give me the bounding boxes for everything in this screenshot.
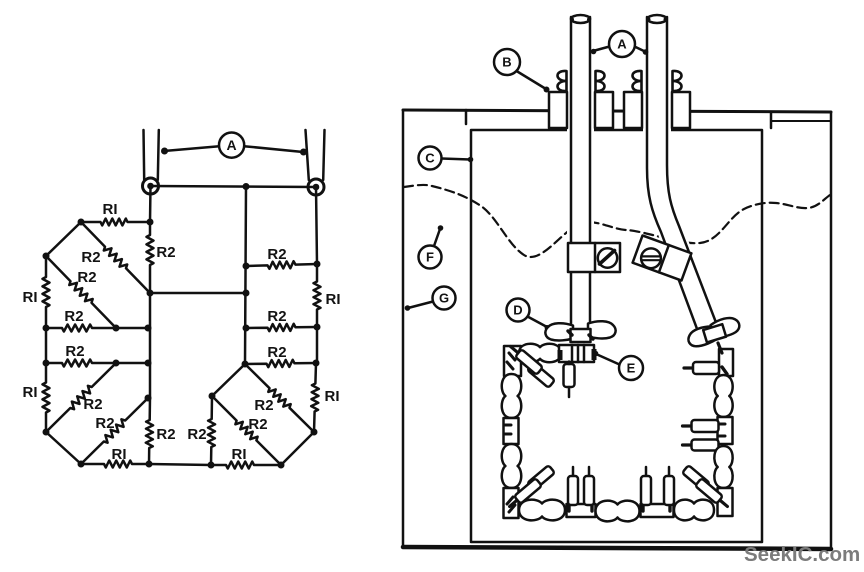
node xyxy=(147,290,154,297)
clamp B2 xyxy=(596,71,605,92)
svg-text:RI: RI xyxy=(325,388,340,405)
bottom peanut 1 xyxy=(519,500,565,521)
tilted cylinders bottom-left xyxy=(519,465,555,497)
wire mid vertical xyxy=(245,187,246,365)
stirrer hub stem right xyxy=(718,343,722,353)
wire left vertical top xyxy=(149,186,152,222)
chain mid box right xyxy=(718,417,733,444)
chain peanut left 1 xyxy=(502,374,521,418)
svg-text:R2: R2 xyxy=(254,397,273,414)
svg-text:R2: R2 xyxy=(65,343,84,360)
resistor R2 mid-left vertical xyxy=(147,222,154,293)
label F xyxy=(434,229,440,246)
svg-text:RI: RI xyxy=(23,384,38,401)
ammeter A xyxy=(219,133,244,158)
stirrer right xyxy=(685,315,742,349)
clamp B4 xyxy=(673,71,682,92)
label B xyxy=(517,71,547,89)
label D xyxy=(528,317,548,328)
right horiz cylinder 1 xyxy=(684,362,719,374)
holder clamp right tube xyxy=(633,235,692,280)
tank flange tick right xyxy=(770,112,773,128)
svg-text:B: B xyxy=(502,55,511,70)
bottom box 1 xyxy=(567,504,596,517)
resistor R2 diamond lower diag xyxy=(212,396,281,465)
top-left horizontal peanut xyxy=(519,344,561,362)
resistor R1 right vertical lower xyxy=(311,363,319,432)
label E xyxy=(596,354,620,365)
chain peanut right 1 xyxy=(714,375,732,417)
resistor R2 right row1 xyxy=(246,324,317,331)
small cylinder below E xyxy=(564,364,575,387)
wire mid horizontal xyxy=(150,292,246,295)
watermark xyxy=(744,543,860,566)
electrode tube left xyxy=(567,17,594,332)
svg-text:RI: RI xyxy=(103,201,118,218)
chain peanut right 2 xyxy=(714,446,732,488)
label C xyxy=(442,159,471,160)
right electrode tube xyxy=(306,130,309,180)
wire right vertical top xyxy=(316,187,317,264)
liquid level dashed xyxy=(404,185,830,257)
bottom cylinder 4 xyxy=(668,467,671,476)
right horiz cylinder 2 xyxy=(683,420,719,432)
left electrode tube xyxy=(142,130,145,180)
bottom cylinder 1 xyxy=(572,467,575,476)
svg-text:R2: R2 xyxy=(156,426,175,443)
svg-text:R2: R2 xyxy=(77,269,96,286)
chain corner box top-right xyxy=(719,349,733,376)
svg-text:R2: R2 xyxy=(267,308,286,325)
svg-text:A: A xyxy=(227,137,237,153)
wire to ammeter left xyxy=(164,146,219,151)
svg-text:E: E xyxy=(627,361,636,376)
wire diag lower-left xyxy=(46,432,81,464)
bottom peanut 3 xyxy=(674,500,714,521)
resistor R2 diamond right diag xyxy=(245,364,314,432)
svg-text:F: F xyxy=(426,250,434,265)
svg-text:R2: R2 xyxy=(83,396,102,413)
stirrer left (D) xyxy=(545,323,573,340)
resistor R2 x212 vertical xyxy=(208,396,215,465)
wire diamond left diag xyxy=(212,364,245,396)
wire to ammeter right xyxy=(244,146,303,152)
resistor R2 right row0 xyxy=(246,261,317,269)
resistor R2 right row2 xyxy=(245,360,316,367)
svg-text:SeekIC.com: SeekIC.com xyxy=(744,543,860,566)
resistor R2 diagonal 4 xyxy=(81,398,148,464)
svg-text:R2: R2 xyxy=(64,308,83,325)
terminal left xyxy=(143,178,159,194)
bottom cylinder 2 xyxy=(588,467,591,476)
wire x150 vertical xyxy=(149,293,152,398)
resistor R1 top-left xyxy=(81,219,150,226)
wire baseline xyxy=(151,186,317,187)
svg-text:R2: R2 xyxy=(267,344,286,361)
resistor R1 bottom left xyxy=(81,461,149,468)
resistor R2 diagonal 3 xyxy=(46,363,116,432)
electrode tube right (bent) xyxy=(643,17,720,332)
svg-text:R2: R2 xyxy=(156,244,175,261)
wire bottom xyxy=(149,464,211,465)
chain mid box left xyxy=(504,418,519,444)
chain corner box bottom-left xyxy=(504,488,519,518)
svg-text:RI: RI xyxy=(326,291,341,308)
resistor R2 diagonal xyxy=(81,222,150,293)
wire diamond bottom diag xyxy=(281,432,314,465)
inner vessel xyxy=(471,130,762,542)
tilted cylinders top-left xyxy=(519,356,555,388)
clamp B3 xyxy=(633,71,642,92)
chain corner box bottom-right xyxy=(718,488,733,516)
resistor R1 left vertical upper xyxy=(43,256,50,328)
resistor R1 bottom right xyxy=(211,462,281,469)
resistor R2 horizontal row2 left xyxy=(46,360,148,367)
resistor R2 horizontal row1 left xyxy=(46,325,148,332)
resistor R2 x150 lower xyxy=(146,398,153,464)
ammeter label A right xyxy=(593,47,610,52)
bottom cylinder 3 xyxy=(645,467,648,476)
tank flange tick left xyxy=(465,110,468,124)
chain corner box top-left xyxy=(504,346,521,376)
bottom peanut 2 xyxy=(596,501,640,522)
tilted cylinders bottom-right xyxy=(682,465,718,497)
holder clamp left tube xyxy=(568,243,620,272)
svg-text:R2: R2 xyxy=(95,415,114,432)
svg-text:R2: R2 xyxy=(81,249,100,266)
svg-text:RI: RI xyxy=(23,289,38,306)
svg-text:RI: RI xyxy=(112,446,127,463)
svg-text:RI: RI xyxy=(232,446,247,463)
resistor R1 left vertical lower xyxy=(43,363,50,432)
svg-text:G: G xyxy=(439,291,449,306)
wire left vertical join xyxy=(45,328,48,363)
bottom box 2 xyxy=(641,504,674,517)
clamp B1 xyxy=(558,71,567,92)
svg-text:R2: R2 xyxy=(187,426,206,443)
svg-text:R2: R2 xyxy=(248,416,267,433)
tank flange line right xyxy=(772,120,831,122)
tank outer wall xyxy=(402,110,405,547)
right horiz cylinder 3 xyxy=(683,440,719,451)
svg-text:D: D xyxy=(513,303,522,318)
label G xyxy=(408,302,433,309)
svg-text:A: A xyxy=(617,37,627,52)
svg-text:C: C xyxy=(425,151,435,166)
chain peanut left 2 xyxy=(502,444,521,488)
resistor R1 right vertical upper xyxy=(314,264,321,327)
svg-text:R2: R2 xyxy=(267,246,286,263)
element holder E xyxy=(559,345,594,362)
wire right vertical join xyxy=(316,327,319,363)
wire diag xyxy=(46,222,81,256)
resistor R2 diagonal 2 xyxy=(46,256,116,328)
terminal right xyxy=(308,179,324,195)
